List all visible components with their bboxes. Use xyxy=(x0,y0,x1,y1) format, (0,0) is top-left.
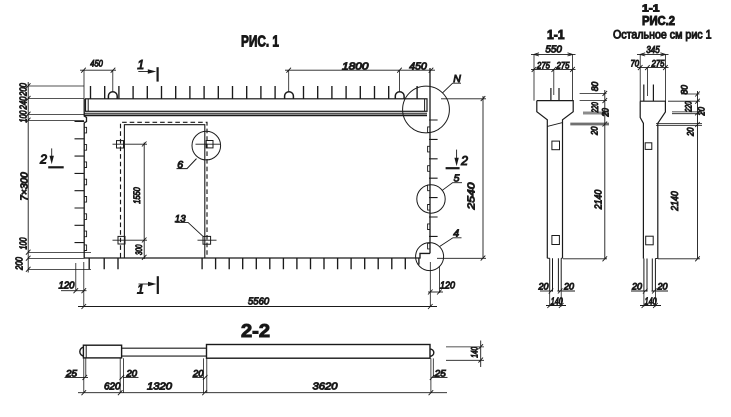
section marker 1 bottom: bar xyxy=(157,276,159,294)
right section dim 70/275 line xyxy=(637,67,669,69)
opening dashed contour xyxy=(121,122,208,257)
bottom dowel ticks main group xyxy=(202,258,419,269)
left edge key ticks xyxy=(75,122,85,243)
main dim slashes xyxy=(82,390,434,395)
callout leader 13 xyxy=(175,222,203,236)
svg-text:100: 100 xyxy=(19,237,30,249)
bottom dowel ticks left group xyxy=(89,258,118,269)
left section 2140 bottom ext xyxy=(563,258,607,260)
SECTIONS 1-1 and RIS2 xyxy=(531,4,712,308)
left section extension verticals xyxy=(534,54,573,100)
right section bottom verticals xyxy=(644,292,656,307)
right dim 2540 extension bottom xyxy=(437,257,486,259)
svg-text:275: 275 xyxy=(651,59,666,69)
panel left edge xyxy=(84,99,86,258)
svg-text:450: 450 xyxy=(409,62,427,73)
panel right edge xyxy=(429,68,431,253)
embed bottom-right axis line xyxy=(198,239,217,241)
embed plate top-left xyxy=(117,141,124,148)
SECTION 2-2 xyxy=(65,321,485,395)
beam left end cap xyxy=(87,99,89,112)
svg-text:20: 20 xyxy=(686,127,696,136)
right section extension verticals xyxy=(640,54,665,101)
left section upper hole xyxy=(552,141,560,150)
svg-text:1-1: 1-1 xyxy=(642,4,660,15)
section marker 2 left: bar xyxy=(48,166,64,168)
left section dim stack slashes xyxy=(603,91,608,261)
left section bottom dim 20 slashes xyxy=(549,289,563,294)
right dim 2540 extension top xyxy=(441,98,486,100)
svg-text:1550: 1550 xyxy=(132,187,142,204)
right section legs xyxy=(643,259,657,292)
dim 25 right verticals xyxy=(431,358,433,393)
dim 20 first underline xyxy=(123,376,138,378)
svg-text:80: 80 xyxy=(590,82,600,92)
svg-text:1800: 1800 xyxy=(342,62,369,73)
svg-text:13: 13 xyxy=(175,213,186,225)
svg-text:20: 20 xyxy=(631,282,642,292)
svg-text:N: N xyxy=(453,73,461,85)
right section dim 345 arrows xyxy=(640,53,665,56)
svg-text:1: 1 xyxy=(137,283,144,297)
embed top-left axis line xyxy=(113,143,148,145)
svg-text:300: 300 xyxy=(134,244,144,255)
right section lower hole xyxy=(646,236,654,245)
beam lower strip thin line xyxy=(85,112,428,114)
panel bottom edge with corner notch xyxy=(84,253,430,258)
bottom dim 120 left: slashes xyxy=(74,288,87,293)
section marker 2 right: bar xyxy=(446,167,460,169)
lifting loop 1 xyxy=(108,92,117,99)
svg-text:20: 20 xyxy=(125,368,137,378)
dim 25 left slash xyxy=(83,375,88,380)
left chain slash ticks xyxy=(26,83,31,271)
right section dim stack ext lines xyxy=(656,94,702,125)
bar left block xyxy=(83,345,121,358)
callout circle 5 xyxy=(417,185,445,213)
dim 140 right line xyxy=(480,341,482,368)
section marker 1 top: arrow xyxy=(138,71,148,73)
callout circle 4 xyxy=(416,243,444,271)
svg-text:80: 80 xyxy=(680,85,690,95)
section marker 2 right: arrow xyxy=(456,150,458,159)
right section bottom dim 20 left underline xyxy=(631,290,648,292)
left section head outline xyxy=(537,101,573,259)
right dim 2540 slashes xyxy=(481,96,486,261)
callout circle N top right xyxy=(403,86,450,133)
embed plate bottom-right xyxy=(203,236,211,244)
beam right end cap xyxy=(424,99,426,112)
svg-text:20: 20 xyxy=(601,108,611,117)
top dimension line left segment 450 xyxy=(80,69,116,71)
right section dim 70/275 slashes xyxy=(638,65,668,70)
bar right nub hook xyxy=(430,349,434,356)
bottom dim 120 right: line xyxy=(428,291,443,293)
svg-text:275: 275 xyxy=(556,60,571,70)
svg-text:20: 20 xyxy=(563,282,574,292)
right section head outline xyxy=(640,101,665,258)
svg-text:220: 220 xyxy=(590,102,600,113)
bottom dim 120 left: line xyxy=(61,290,87,292)
top dim right slash ticks xyxy=(286,68,433,73)
svg-text:550: 550 xyxy=(545,45,562,56)
svg-text:РИС.2: РИС.2 xyxy=(642,14,675,28)
svg-text:20: 20 xyxy=(697,107,707,116)
right section bottom dim 20 slashes xyxy=(643,289,657,294)
left section bottom verticals xyxy=(550,292,562,307)
svg-text:20: 20 xyxy=(657,282,668,292)
dim 25 left verticals xyxy=(84,358,86,393)
svg-text:7×300: 7×300 xyxy=(20,172,31,201)
dim 20 first verticals xyxy=(120,358,123,393)
svg-text:25: 25 xyxy=(65,368,78,378)
svg-text:620: 620 xyxy=(104,381,121,392)
right section dim 345 line xyxy=(637,53,669,55)
svg-text:450: 450 xyxy=(90,59,103,69)
left edge key jogs xyxy=(84,127,86,250)
left section dim 275 line xyxy=(531,68,576,70)
svg-text:100: 100 xyxy=(19,110,30,122)
left section dim 550 line xyxy=(531,53,576,55)
dim 20 second slash xyxy=(203,375,208,380)
bar left block cap xyxy=(85,345,87,358)
right section upper hole xyxy=(645,143,652,150)
dim 20 first slash xyxy=(120,375,125,380)
bar left nub hook xyxy=(80,347,84,356)
svg-text:2140: 2140 xyxy=(594,189,605,210)
inner dim 1550/300 line xyxy=(143,143,145,260)
svg-text:140: 140 xyxy=(470,347,480,358)
embed plate top-right xyxy=(206,141,213,148)
top dimension line right segment 1800+450 xyxy=(285,69,435,71)
left section dim 140 line xyxy=(546,305,566,307)
MAIN FIGURE RIS1 xyxy=(15,33,487,309)
callout circle 6 xyxy=(192,131,221,160)
dim 140 right slashes xyxy=(478,344,483,362)
bottom dim 120 right: slashes xyxy=(428,290,442,295)
svg-text:240: 240 xyxy=(19,96,30,110)
embed plate bottom-left xyxy=(118,236,125,244)
left section top dowels xyxy=(551,88,559,101)
right section dim 140 line xyxy=(640,305,661,307)
main dim line 620 1320 3620 xyxy=(78,392,447,394)
left section vertical dim line 2140 xyxy=(604,90,606,259)
callout leader 5 xyxy=(442,183,462,191)
svg-text:2: 2 xyxy=(460,154,468,168)
embed bottom-left axis line xyxy=(113,239,148,241)
right section dim stack slashes xyxy=(695,92,700,262)
right section top dowels xyxy=(644,85,654,102)
lifting loop 3 xyxy=(395,92,404,99)
section marker 1 bottom: arrow xyxy=(139,283,149,285)
right dim 2540 line xyxy=(482,96,484,258)
svg-text:20: 20 xyxy=(590,127,600,136)
svg-text:120: 120 xyxy=(440,280,455,291)
svg-text:1320: 1320 xyxy=(147,381,172,392)
right edge key jogs xyxy=(428,127,430,249)
dim 25 left underline xyxy=(65,376,89,378)
left section right dim stack ext lines xyxy=(570,93,609,124)
svg-text:5: 5 xyxy=(454,172,460,184)
right section 2140 bottom ext xyxy=(658,258,700,260)
svg-text:3620: 3620 xyxy=(313,381,338,392)
callout leader 6 xyxy=(177,159,197,169)
svg-text:25: 25 xyxy=(434,368,447,378)
beam top chord outline xyxy=(86,99,428,112)
svg-text:2-2: 2-2 xyxy=(241,321,270,341)
svg-text:120: 120 xyxy=(59,281,75,292)
bottom dim 5560 slashes xyxy=(82,304,433,309)
svg-text:200: 200 xyxy=(19,83,30,97)
left section legs xyxy=(547,258,562,291)
left section bottom dim 20 right underline xyxy=(557,290,575,292)
svg-text:2: 2 xyxy=(39,152,47,166)
left section dim 275 slashes xyxy=(532,67,575,72)
bottom dim 120 left: verticals xyxy=(76,262,84,307)
svg-text:1-1: 1-1 xyxy=(547,28,565,42)
bar right block xyxy=(207,345,431,359)
svg-text:5560: 5560 xyxy=(248,296,270,307)
dim 25 right underline xyxy=(432,376,448,378)
svg-text:2540: 2540 xyxy=(467,182,478,211)
lifting loop 2 xyxy=(285,92,294,99)
left section lower hole xyxy=(552,236,560,245)
right section bottom dim 20 right underline xyxy=(652,290,669,292)
dim 25 right slash xyxy=(430,375,435,380)
svg-text:2140: 2140 xyxy=(670,191,681,212)
svg-text:70: 70 xyxy=(631,59,640,69)
right section vertical dim line 2140 xyxy=(697,91,699,259)
top dowel ticks xyxy=(91,86,418,99)
inner dim slashes xyxy=(142,142,147,260)
dim 20 second verticals xyxy=(203,358,206,393)
svg-text:РИС. 1: РИС. 1 xyxy=(241,33,279,50)
bar middle recess strip xyxy=(122,348,207,356)
bottom dim 5560 line xyxy=(78,306,437,308)
right section dim 140 slashes xyxy=(642,303,658,308)
left section stem joint diagonal xyxy=(547,123,562,127)
top dim 450 slash ticks xyxy=(81,68,115,73)
svg-text:220: 220 xyxy=(684,101,694,112)
opening solid contour xyxy=(124,125,204,258)
left section dim 550 arrows xyxy=(534,53,573,56)
embed top-right axis line xyxy=(196,143,221,145)
top dim extension verticals xyxy=(84,70,400,99)
svg-text:200: 200 xyxy=(15,257,26,271)
left dimension chain line xyxy=(27,82,29,273)
svg-text:1: 1 xyxy=(137,58,144,72)
right edge key ticks xyxy=(429,120,438,236)
dim 140 right ext lines xyxy=(446,347,484,360)
beam lower strip thick line xyxy=(85,114,428,116)
callout leader 4 xyxy=(440,238,462,247)
svg-text:6: 6 xyxy=(177,159,183,171)
section marker 2 left: arrow xyxy=(51,148,53,156)
svg-text:275: 275 xyxy=(536,60,551,70)
dim 20 second underline xyxy=(192,376,203,378)
bottom dim 120 right: verticals xyxy=(430,262,439,307)
svg-text:4: 4 xyxy=(453,228,459,240)
section marker 1 top: bar xyxy=(157,67,159,81)
left section bottom dim 20 left underline xyxy=(540,290,553,292)
svg-text:20: 20 xyxy=(192,368,204,378)
callout leader N xyxy=(443,83,461,93)
svg-text:Остальное см рис 1: Остальное см рис 1 xyxy=(613,30,712,42)
left section dim 140 slashes xyxy=(547,303,563,308)
svg-text:20: 20 xyxy=(538,282,549,292)
left chain extension lines xyxy=(28,86,91,270)
